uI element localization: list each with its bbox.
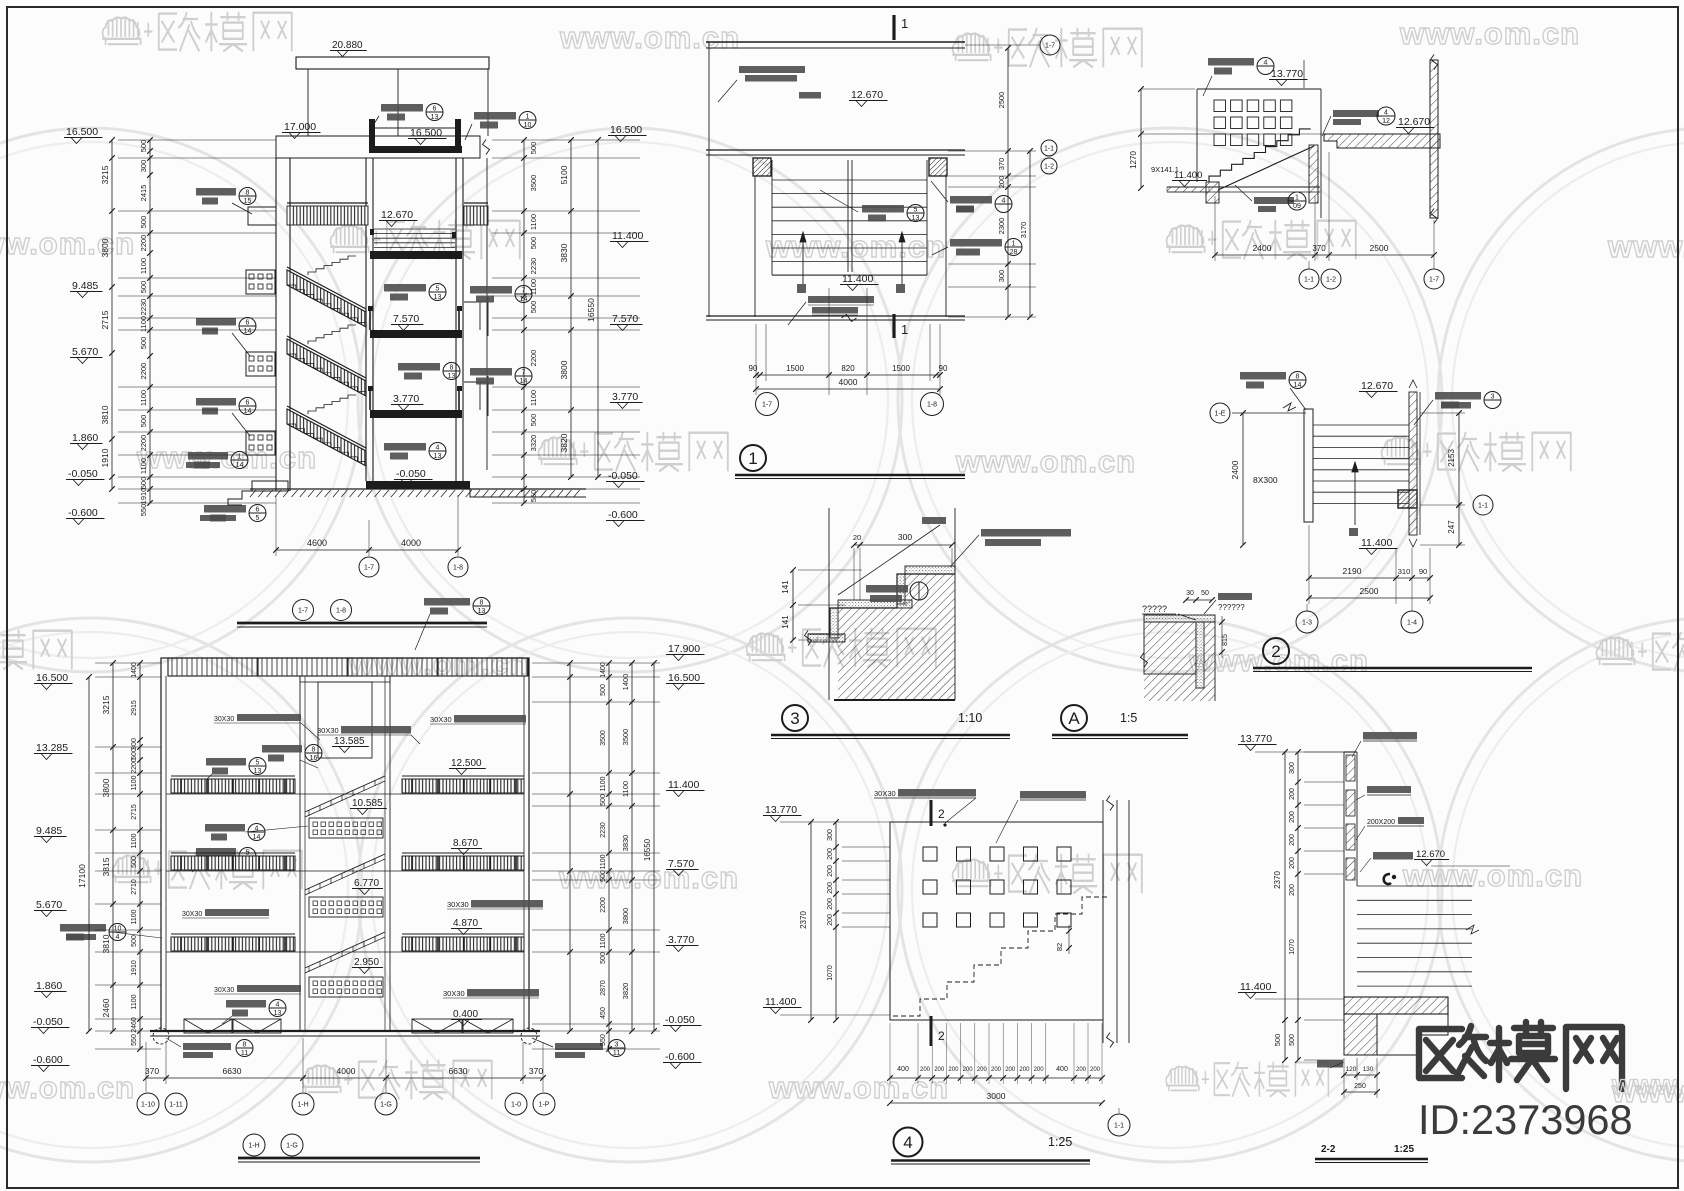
svg-text:1:25: 1:25 bbox=[1394, 1144, 1414, 1155]
svg-text:12.670: 12.670 bbox=[1361, 380, 1393, 392]
svg-text:500: 500 bbox=[529, 142, 538, 155]
detail title 1 bbox=[740, 445, 766, 471]
parapet wall I bbox=[1343, 752, 1345, 1020]
svg-text:6: 6 bbox=[246, 320, 250, 327]
callout joint 10-4 G bbox=[60, 924, 106, 932]
svg-text:3215: 3215 bbox=[100, 165, 110, 184]
svg-text:12.670: 12.670 bbox=[381, 209, 413, 221]
svg-text:300: 300 bbox=[131, 738, 138, 750]
copper strip label F bbox=[1218, 593, 1252, 600]
svg-text:9.485: 9.485 bbox=[72, 280, 98, 292]
svg-text:820: 820 bbox=[841, 364, 855, 373]
window block C bbox=[1197, 88, 1321, 90]
wall panel H bbox=[890, 822, 1103, 1020]
svg-text:13: 13 bbox=[448, 373, 456, 380]
svg-text:2400: 2400 bbox=[1253, 243, 1272, 253]
svg-text:1-E: 1-E bbox=[1215, 411, 1226, 418]
parapet post right bbox=[455, 119, 461, 146]
svg-text:550: 550 bbox=[600, 1034, 607, 1046]
svg-text:1-0: 1-0 bbox=[511, 1102, 521, 1109]
svg-text:1-8: 1-8 bbox=[336, 608, 346, 615]
svg-text:4000: 4000 bbox=[337, 1066, 356, 1076]
svg-text:30X30: 30X30 bbox=[182, 911, 202, 918]
svg-text:15: 15 bbox=[244, 198, 252, 205]
svg-text:2370: 2370 bbox=[799, 911, 808, 929]
section A group bbox=[64, 40, 649, 627]
svg-text:09: 09 bbox=[1293, 203, 1301, 210]
gable break bbox=[483, 140, 490, 155]
svg-text:13: 13 bbox=[274, 1010, 282, 1017]
svg-text:2-2: 2-2 bbox=[1321, 1144, 1336, 1155]
axis bubble B1 bbox=[756, 393, 779, 416]
left dim line outer bbox=[111, 140, 113, 489]
stringer bar D bbox=[1304, 409, 1313, 522]
svg-text:200: 200 bbox=[827, 865, 834, 877]
break F bbox=[1141, 653, 1148, 668]
watermark logo bbox=[539, 432, 728, 472]
svg-text:1100: 1100 bbox=[600, 776, 607, 791]
bottom dim B1 bbox=[756, 374, 940, 376]
svg-text:11.400: 11.400 bbox=[1240, 981, 1271, 993]
watermark logo bbox=[953, 28, 1142, 68]
svg-text:141: 141 bbox=[781, 615, 790, 629]
svg-text:1910: 1910 bbox=[139, 488, 148, 505]
rail band G level1 right bbox=[402, 779, 524, 793]
svg-text:8: 8 bbox=[450, 365, 454, 372]
svg-text:30X30: 30X30 bbox=[214, 987, 234, 994]
dashed stair H bbox=[893, 897, 1109, 1016]
callout rail 5-13 mid bbox=[384, 284, 426, 292]
plan bottom wall bbox=[706, 315, 965, 317]
stair flight band 1 bbox=[287, 270, 366, 327]
watermark url text bbox=[1188, 643, 1369, 678]
svg-text:550: 550 bbox=[139, 504, 148, 517]
svg-text:1500: 1500 bbox=[786, 364, 804, 373]
svg-text:200: 200 bbox=[1090, 1067, 1101, 1073]
svg-text:200: 200 bbox=[827, 882, 834, 894]
svg-text:1100: 1100 bbox=[139, 390, 148, 406]
callout glass tread 3 D bbox=[1435, 392, 1481, 400]
svg-text:1100: 1100 bbox=[529, 390, 538, 406]
svg-text:1: 1 bbox=[901, 16, 908, 31]
rail band G level3 left bbox=[171, 937, 295, 951]
svg-text:6630: 6630 bbox=[223, 1066, 242, 1076]
watermark url text bbox=[136, 440, 317, 475]
left wall bbox=[275, 158, 277, 491]
stair flight steps 2 bbox=[287, 354, 366, 396]
svg-text:200X200: 200X200 bbox=[1367, 819, 1395, 826]
section cut 2 bottom H bbox=[930, 1016, 933, 1046]
svg-text:500: 500 bbox=[139, 337, 148, 350]
svg-text:1: 1 bbox=[901, 322, 908, 337]
svg-text:3170: 3170 bbox=[1019, 222, 1028, 239]
svg-text:2715: 2715 bbox=[131, 804, 138, 820]
glass tile blocks I bbox=[1346, 755, 1355, 781]
svg-text:1-2: 1-2 bbox=[1044, 164, 1054, 171]
callout rail 5-13 G1 bbox=[206, 758, 246, 766]
callout balustrade 4 plan bbox=[950, 196, 992, 204]
roof slab bar bbox=[369, 146, 462, 153]
column right bbox=[929, 158, 947, 176]
svg-text:200: 200 bbox=[1289, 857, 1296, 869]
svg-text:2200: 2200 bbox=[139, 435, 148, 452]
svg-text:7: 7 bbox=[522, 370, 526, 377]
right dims G bbox=[569, 663, 571, 1031]
svg-text:7.570: 7.570 bbox=[668, 858, 694, 870]
svg-text:1-8: 1-8 bbox=[453, 565, 463, 572]
watermark logo bbox=[953, 854, 1142, 894]
svg-text:3800: 3800 bbox=[101, 778, 111, 797]
left extension lines bbox=[118, 139, 276, 141]
svg-text:11: 11 bbox=[613, 1050, 620, 1057]
watermark url text bbox=[559, 20, 740, 55]
bottom dims G bbox=[146, 1077, 543, 1079]
callout rail 4-14 G bbox=[205, 824, 245, 832]
callout rail 4-13 low bbox=[384, 443, 426, 451]
landing edge plan bbox=[772, 274, 927, 276]
floor line G3 bbox=[166, 951, 524, 953]
core top box G bbox=[318, 682, 372, 758]
svg-text:82: 82 bbox=[1055, 943, 1064, 951]
right edge wall bbox=[486, 158, 488, 470]
core window G2 bbox=[309, 897, 383, 917]
svg-text:2200: 2200 bbox=[131, 758, 138, 774]
watermark logo bbox=[103, 12, 292, 52]
doors G left bbox=[184, 1019, 232, 1033]
stair flight band 3 bbox=[287, 409, 366, 466]
right wall C bbox=[1430, 60, 1438, 218]
svg-text:4: 4 bbox=[1264, 60, 1268, 67]
svg-text:8: 8 bbox=[243, 1042, 247, 1049]
svg-text:2400: 2400 bbox=[1230, 460, 1240, 479]
right balcony rail 3.77 bbox=[464, 381, 488, 383]
svg-text:-0.050: -0.050 bbox=[33, 1016, 63, 1028]
ground slab bbox=[366, 481, 470, 489]
svg-text:1-G: 1-G bbox=[380, 1102, 392, 1109]
svg-text:500: 500 bbox=[139, 140, 148, 153]
title underline A bbox=[237, 622, 487, 625]
right dim D bbox=[1458, 413, 1460, 505]
svg-text:90: 90 bbox=[1419, 567, 1427, 576]
svg-text:2: 2 bbox=[1271, 642, 1280, 661]
watermark logo bbox=[1167, 220, 1356, 260]
left dim D bbox=[1242, 413, 1244, 545]
svg-text:1400: 1400 bbox=[600, 662, 607, 678]
svg-text:1100: 1100 bbox=[131, 994, 138, 1009]
column left bbox=[753, 158, 771, 176]
svg-text:3500: 3500 bbox=[621, 729, 630, 746]
right ext lines G bbox=[532, 662, 660, 664]
watermark url text bbox=[768, 1070, 949, 1105]
bottom ext B bbox=[755, 324, 757, 395]
glass block D bbox=[1398, 490, 1417, 508]
rail band G level2 left bbox=[171, 856, 295, 870]
mid landing slab 3.77 bbox=[370, 410, 462, 418]
up arrow right bbox=[901, 232, 903, 284]
callout tread 1-09 C bbox=[1254, 197, 1294, 204]
svg-text:1-10: 1-10 bbox=[141, 1102, 155, 1109]
stair steps upper 2 bbox=[308, 325, 356, 344]
svg-text:247: 247 bbox=[1447, 520, 1456, 534]
svg-text:1-7: 1-7 bbox=[298, 608, 308, 615]
svg-text:2870: 2870 bbox=[600, 980, 607, 996]
svg-text:7: 7 bbox=[522, 288, 526, 295]
watermark logo bbox=[747, 628, 936, 668]
svg-text:500: 500 bbox=[529, 301, 538, 314]
axis bubbles G bottom bbox=[137, 1093, 159, 1115]
svg-text:500: 500 bbox=[529, 237, 538, 250]
stringer C bbox=[1218, 146, 1314, 190]
svg-text:300: 300 bbox=[1289, 762, 1296, 774]
handrail hook I bbox=[1384, 874, 1391, 884]
treads D bbox=[1313, 424, 1409, 426]
callout rail 8-13 bbox=[398, 363, 440, 371]
svg-text:1-8: 1-8 bbox=[927, 402, 937, 409]
left dim E bbox=[792, 570, 794, 640]
svg-text:2: 2 bbox=[938, 1029, 945, 1043]
callout rail 8-14 D bbox=[1240, 372, 1286, 380]
svg-text:12.670: 12.670 bbox=[1416, 849, 1445, 860]
right wall H bbox=[1102, 800, 1104, 1043]
svg-text:6: 6 bbox=[246, 400, 250, 407]
stair steps upper 1 bbox=[308, 256, 356, 275]
svg-text:1070: 1070 bbox=[1289, 939, 1296, 955]
canopy slab bbox=[296, 57, 489, 69]
svg-text:3800: 3800 bbox=[100, 238, 110, 257]
svg-text:1-2: 1-2 bbox=[1326, 277, 1336, 284]
bottom dim C bbox=[1215, 254, 1434, 256]
svg-text:13.770: 13.770 bbox=[1240, 733, 1272, 745]
svg-text:30X30: 30X30 bbox=[447, 900, 469, 909]
watermark logo bbox=[113, 850, 302, 890]
up label right bbox=[896, 284, 905, 293]
svg-text:1910: 1910 bbox=[100, 448, 110, 467]
svg-text:11: 11 bbox=[241, 1050, 248, 1057]
callout balustrade 4 C bbox=[1208, 58, 1254, 66]
core window G1 bbox=[309, 818, 383, 838]
detail H group bbox=[763, 789, 1130, 1164]
svg-text:300: 300 bbox=[997, 270, 1006, 283]
svg-text:310: 310 bbox=[1398, 567, 1411, 576]
axis 1-E D bbox=[1210, 403, 1230, 423]
watermark url text bbox=[955, 444, 1136, 479]
site watermark big logo bbox=[1419, 1022, 1622, 1089]
svg-text:6.770: 6.770 bbox=[354, 878, 379, 889]
svg-text:28: 28 bbox=[1010, 249, 1018, 256]
watermark url text bbox=[348, 646, 529, 681]
svg-text:10.585: 10.585 bbox=[352, 798, 383, 809]
svg-text:200: 200 bbox=[1019, 1067, 1030, 1073]
rail band G level1 left bbox=[171, 779, 295, 793]
svg-text:8: 8 bbox=[246, 190, 250, 197]
svg-text:90: 90 bbox=[749, 364, 758, 373]
svg-text:1-7: 1-7 bbox=[1429, 277, 1439, 284]
svg-text:13: 13 bbox=[434, 294, 442, 301]
landing text bbox=[799, 92, 821, 99]
sealant label I bbox=[1367, 786, 1411, 793]
svg-text:815: 815 bbox=[1222, 634, 1229, 646]
svg-text:4000: 4000 bbox=[839, 377, 858, 387]
watermark logo bbox=[1166, 1062, 1328, 1097]
svg-text:2370: 2370 bbox=[1273, 871, 1282, 889]
svg-text:13.585: 13.585 bbox=[334, 736, 365, 747]
watermark url text bbox=[558, 860, 739, 895]
svg-text:12: 12 bbox=[1382, 118, 1390, 125]
corridor rail band 12.67 right bbox=[464, 206, 488, 225]
svg-text:2.950: 2.950 bbox=[354, 957, 379, 968]
svg-text:3820: 3820 bbox=[559, 433, 569, 452]
svg-text:1-1: 1-1 bbox=[1304, 277, 1314, 284]
watermark url text bbox=[1611, 1074, 1684, 1109]
svg-text:370: 370 bbox=[1312, 244, 1326, 253]
svg-text:5: 5 bbox=[256, 515, 260, 522]
left canopy box bbox=[248, 207, 276, 225]
svg-text:200: 200 bbox=[1289, 788, 1296, 800]
svg-text:200: 200 bbox=[920, 1067, 931, 1073]
detail title A bbox=[1061, 705, 1087, 731]
left dims H bbox=[810, 822, 812, 1020]
svg-text:370: 370 bbox=[529, 1066, 543, 1076]
svg-text:12.670: 12.670 bbox=[851, 89, 883, 101]
svg-text:370: 370 bbox=[145, 1066, 159, 1076]
svg-text:2460: 2460 bbox=[101, 998, 111, 1017]
svg-text:200: 200 bbox=[1289, 811, 1296, 823]
stair well sides bbox=[754, 176, 756, 317]
callout rail 8-13 top G bbox=[424, 598, 470, 606]
svg-text:500: 500 bbox=[131, 935, 138, 947]
svg-text:-0.050: -0.050 bbox=[608, 470, 638, 482]
svg-text:500: 500 bbox=[139, 415, 148, 428]
step outline E bbox=[808, 574, 955, 634]
leader stair E bbox=[838, 525, 940, 595]
svg-text:3830: 3830 bbox=[621, 835, 630, 852]
ground line G bbox=[150, 1030, 540, 1032]
svg-text:13: 13 bbox=[912, 215, 920, 222]
svg-text:4600: 4600 bbox=[307, 538, 327, 548]
svg-text:4: 4 bbox=[116, 934, 120, 941]
svg-text:30: 30 bbox=[1186, 590, 1194, 597]
svg-text:200: 200 bbox=[963, 1067, 974, 1073]
svg-text:4: 4 bbox=[436, 445, 440, 452]
drip dims I bbox=[1344, 1074, 1377, 1076]
left ext lines G bbox=[95, 662, 161, 664]
core right wall bbox=[455, 158, 457, 481]
svg-text:2200: 2200 bbox=[139, 363, 148, 380]
svg-text:3.770: 3.770 bbox=[668, 934, 694, 946]
svg-text:2190: 2190 bbox=[1343, 566, 1362, 576]
right dim line outer A bbox=[597, 140, 599, 477]
svg-text:500: 500 bbox=[131, 856, 138, 868]
core tower lines G bbox=[299, 676, 301, 1031]
watermark logo bbox=[1382, 432, 1571, 472]
svg-text:-0.050: -0.050 bbox=[68, 468, 98, 480]
svg-text:6: 6 bbox=[256, 507, 260, 514]
svg-text:1100: 1100 bbox=[131, 833, 138, 848]
callout rail 4-13 G bbox=[226, 1000, 266, 1008]
right dim line inner A bbox=[523, 140, 525, 503]
svg-text:3500: 3500 bbox=[600, 730, 607, 746]
detail C group bbox=[1129, 55, 1444, 290]
svg-text:5100: 5100 bbox=[559, 165, 569, 184]
svg-text:11.400: 11.400 bbox=[1361, 537, 1392, 549]
svg-text:7.570: 7.570 bbox=[393, 313, 419, 325]
svg-text:200: 200 bbox=[1289, 834, 1296, 846]
svg-text:7.570: 7.570 bbox=[612, 313, 638, 325]
svg-text:2500: 2500 bbox=[1360, 586, 1379, 596]
svg-text:1: 1 bbox=[238, 454, 242, 461]
svg-text:200: 200 bbox=[1034, 1067, 1045, 1073]
axis bubble H bbox=[1108, 1114, 1130, 1136]
roof slab band bbox=[276, 136, 480, 158]
step surface band 1 bbox=[905, 566, 955, 574]
section cut 1 top bbox=[892, 15, 895, 40]
svg-text:1100: 1100 bbox=[529, 214, 538, 230]
svg-text:500: 500 bbox=[139, 216, 148, 229]
mid landing slab 12.67 bbox=[370, 251, 462, 259]
svg-text:300: 300 bbox=[139, 160, 148, 173]
svg-text:2230: 2230 bbox=[139, 299, 148, 316]
callout terrazzo E bbox=[981, 529, 1071, 537]
svg-text:3: 3 bbox=[1491, 394, 1495, 401]
floor line G1 bbox=[166, 793, 524, 795]
rail band G level3 right bbox=[402, 937, 524, 951]
svg-text:1:25: 1:25 bbox=[1048, 1135, 1072, 1149]
callout floor joint left G bbox=[183, 1043, 231, 1050]
callout parapet 7-14 a bbox=[470, 286, 512, 294]
svg-text:4000: 4000 bbox=[401, 538, 421, 548]
callout rail 6-14 b bbox=[196, 398, 236, 406]
right balcony rail 7.57 bbox=[464, 301, 488, 303]
svg-text:200: 200 bbox=[827, 848, 834, 860]
plan left wall vertical bbox=[708, 42, 710, 317]
svg-text:2500: 2500 bbox=[997, 92, 1006, 109]
svg-text:2300: 2300 bbox=[997, 218, 1006, 235]
treads plan bbox=[772, 179, 927, 181]
svg-text:5.670: 5.670 bbox=[72, 346, 98, 358]
svg-text:1100: 1100 bbox=[600, 854, 607, 869]
core stair G2 bbox=[305, 854, 385, 890]
svg-text:12.500: 12.500 bbox=[451, 758, 482, 769]
svg-text:3800: 3800 bbox=[621, 908, 630, 925]
callout gutter 6-5 bbox=[204, 505, 246, 513]
axis bubble top right B bbox=[1040, 35, 1060, 55]
svg-text:1.860: 1.860 bbox=[36, 980, 62, 992]
svg-text:13.770: 13.770 bbox=[1271, 68, 1303, 80]
svg-text:16.500: 16.500 bbox=[610, 124, 642, 136]
svg-text:1: 1 bbox=[748, 449, 757, 468]
svg-text:1100: 1100 bbox=[139, 258, 148, 274]
svg-text:1.860: 1.860 bbox=[72, 432, 98, 444]
flight top projection bbox=[374, 228, 455, 230]
bottom dim D1 bbox=[1309, 577, 1430, 579]
svg-text:450: 450 bbox=[600, 1007, 607, 1019]
plan top wall bbox=[706, 41, 965, 43]
step surface band 2 bbox=[838, 600, 912, 608]
svg-text:3500: 3500 bbox=[529, 175, 538, 192]
handrail label I bbox=[1373, 852, 1413, 860]
svg-text:17.900: 17.900 bbox=[668, 643, 700, 655]
core window G3 bbox=[309, 977, 383, 997]
floor slab I bbox=[1344, 997, 1448, 1014]
svg-text:30X30: 30X30 bbox=[874, 789, 896, 798]
right wall D bbox=[1409, 392, 1417, 535]
svg-text:400: 400 bbox=[897, 1066, 909, 1073]
callout eave 8-16 G bbox=[262, 745, 302, 753]
svg-text:16.500: 16.500 bbox=[410, 127, 442, 139]
svg-text:1910: 1910 bbox=[131, 960, 138, 976]
stair steps upper 3 bbox=[308, 395, 356, 414]
svg-text:1-3: 1-3 bbox=[1302, 620, 1312, 627]
